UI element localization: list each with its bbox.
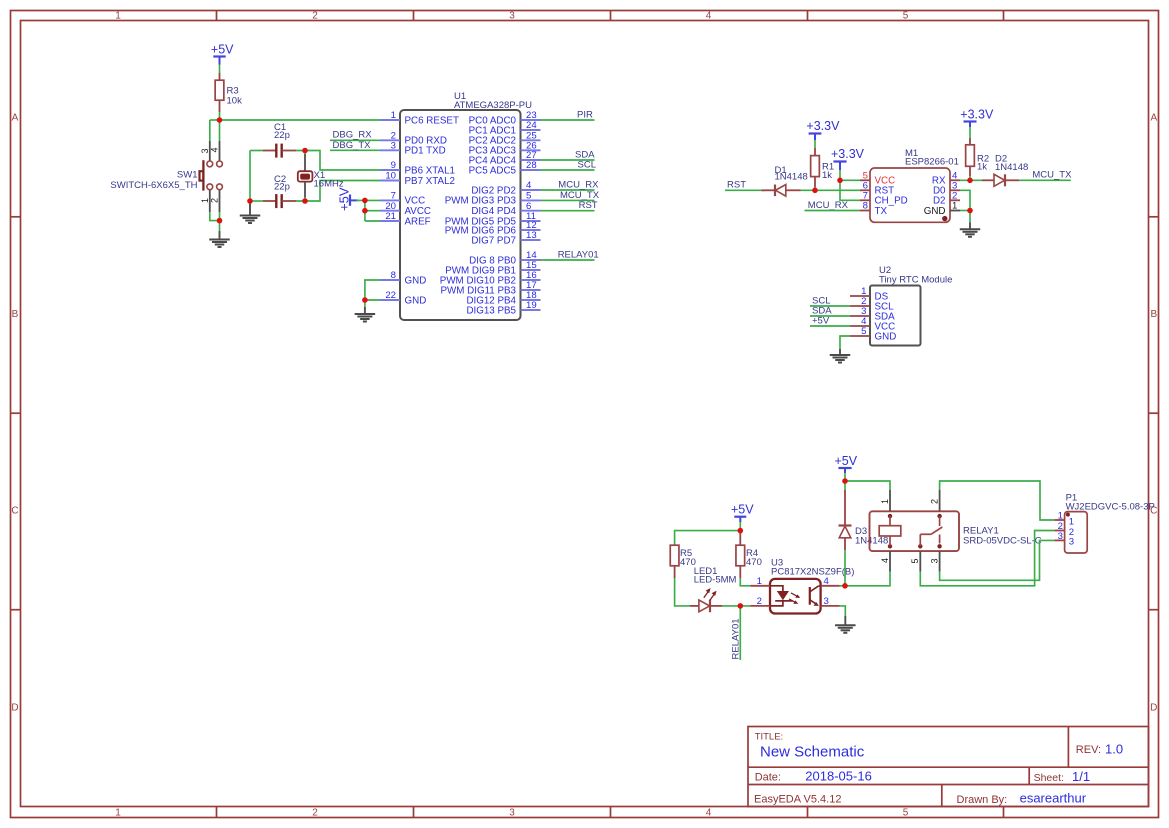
svg-text:WJ2EDGVC-5.08-3P: WJ2EDGVC-5.08-3P xyxy=(1066,501,1155,512)
svg-text:PC6 RESET: PC6 RESET xyxy=(405,115,459,126)
svg-text:4: 4 xyxy=(210,147,220,152)
capacitor C2 xyxy=(250,194,296,208)
U1 pin 12 PWM DIG6 PD6 xyxy=(445,220,541,236)
power flag +3.3V (CH_PD) xyxy=(831,147,865,170)
svg-text:1: 1 xyxy=(1069,516,1074,527)
svg-text:3: 3 xyxy=(391,141,396,152)
U1 pin 10 PB7 XTAL2 xyxy=(380,171,455,187)
wire xyxy=(296,151,381,171)
svg-text:19: 19 xyxy=(526,300,537,311)
U1 pin 22 GND xyxy=(380,290,426,306)
svg-text:RELAY01: RELAY01 xyxy=(558,249,599,260)
RELAY1 contact xyxy=(918,514,942,549)
junction xyxy=(842,478,848,484)
diode D1 1N4148 xyxy=(762,185,801,197)
capacitor C1 xyxy=(250,144,296,158)
net SDA xyxy=(541,149,596,160)
net SCL xyxy=(810,295,850,306)
ground xyxy=(830,355,851,363)
svg-text:5: 5 xyxy=(903,808,909,819)
RELAY1 pin 1 xyxy=(880,490,890,511)
wire xyxy=(844,473,846,481)
U3 pin 3 xyxy=(821,596,840,607)
wire left rail xyxy=(249,151,251,202)
svg-text:2: 2 xyxy=(929,499,939,504)
svg-text:13: 13 xyxy=(526,230,537,241)
U2 pin 2 SCL xyxy=(850,296,894,312)
svg-text:EasyEDA V5.4.12: EasyEDA V5.4.12 xyxy=(754,794,841,806)
svg-text:5: 5 xyxy=(910,558,920,563)
M1 pin 7 CH_PD xyxy=(860,190,908,206)
M1 pin 3 D0 xyxy=(933,180,960,196)
svg-text:DIG13 PB5: DIG13 PB5 xyxy=(466,305,516,316)
U1 pin 21 AREF xyxy=(380,211,431,227)
wire xyxy=(219,212,221,220)
M1 pin 6 RST xyxy=(860,180,894,196)
svg-text:3: 3 xyxy=(929,558,939,563)
junction xyxy=(247,198,253,204)
U3 pin 1 xyxy=(750,576,770,587)
svg-text:PC817X2NSZ9F(B): PC817X2NSZ9F(B) xyxy=(771,567,854,578)
svg-text:B: B xyxy=(1150,309,1157,320)
wire xyxy=(365,210,381,212)
svg-text:1/1: 1/1 xyxy=(1072,769,1090,784)
power flag +3.3V (R2) xyxy=(960,107,994,127)
svg-text:D: D xyxy=(11,703,18,714)
svg-text:Drawn By:: Drawn By: xyxy=(957,794,1008,806)
wire top rail to relay pin1 xyxy=(845,481,890,490)
svg-text:10: 10 xyxy=(385,171,396,182)
U1 pin 24 PC1 ADC1 xyxy=(469,120,541,136)
P1 pin 2 xyxy=(1054,521,1074,538)
svg-text:3: 3 xyxy=(509,808,515,819)
wire xyxy=(740,578,750,586)
svg-text:RST: RST xyxy=(579,200,598,211)
svg-text:SWITCH-6X6X5_TH: SWITCH-6X6X5_TH xyxy=(110,180,197,191)
net MCU_TX xyxy=(541,190,600,201)
wire xyxy=(356,199,381,201)
svg-text:PB7 XTAL2: PB7 XTAL2 xyxy=(405,176,455,187)
RELAY1 pin 5 xyxy=(910,551,920,572)
svg-text:5: 5 xyxy=(903,11,909,22)
net MCU_RX xyxy=(805,200,861,211)
svg-text:1: 1 xyxy=(391,110,396,121)
junction xyxy=(967,178,973,184)
svg-text:1: 1 xyxy=(880,499,890,504)
LED LED1 xyxy=(690,588,722,612)
svg-text:5: 5 xyxy=(861,326,866,337)
net MCU_TX xyxy=(1019,170,1072,181)
wire xyxy=(209,120,211,141)
svg-text:4: 4 xyxy=(880,558,890,563)
svg-text:GND: GND xyxy=(405,275,427,286)
P1 pin 3 xyxy=(1054,531,1074,548)
wire xyxy=(969,211,971,223)
svg-text:+3.3V: +3.3V xyxy=(831,147,865,161)
wire GND xyxy=(840,336,850,349)
svg-text:22p: 22p xyxy=(274,182,290,193)
svg-text:esarearthur: esarearthur xyxy=(1020,791,1087,806)
svg-text:GND: GND xyxy=(875,331,897,342)
U3 internal LED xyxy=(770,586,800,606)
wire xyxy=(365,299,381,301)
wire node RESET to U1 pin1 xyxy=(220,119,382,121)
svg-text:1.0: 1.0 xyxy=(1105,742,1123,757)
wire xyxy=(722,605,750,607)
svg-text:PD1 TXD: PD1 TXD xyxy=(405,146,446,157)
wire xyxy=(840,180,860,200)
wire xyxy=(814,187,816,190)
U3 internal phototransistor xyxy=(810,586,821,606)
U1 pin 9 PB6 XTAL1 xyxy=(380,160,455,176)
U1 pin 15 PWM DIG9 PB1 xyxy=(445,260,540,276)
svg-text:SRD-05VDC-SL-C: SRD-05VDC-SL-C xyxy=(963,536,1042,547)
U1 pin 3 PD1 TXD xyxy=(380,141,446,157)
svg-text:MCU_RX: MCU_RX xyxy=(808,200,849,211)
junction xyxy=(302,198,308,204)
wire xyxy=(960,210,970,212)
resistor R3 xyxy=(215,73,224,112)
ground xyxy=(240,216,261,224)
wire xyxy=(840,606,846,616)
svg-text:3: 3 xyxy=(1058,531,1063,542)
M1 pin 2 D2 xyxy=(933,190,960,206)
svg-text:1: 1 xyxy=(757,576,762,587)
relay RELAY1 SRD-05VDC-SL-C body xyxy=(870,511,960,551)
net SDA xyxy=(810,305,850,316)
svg-text:4: 4 xyxy=(824,576,830,587)
junction xyxy=(812,188,818,194)
wire xyxy=(845,572,890,586)
wire xyxy=(801,189,861,191)
svg-text:RELAY01: RELAY01 xyxy=(730,618,741,659)
svg-text:2: 2 xyxy=(757,596,762,607)
net PIR xyxy=(541,109,595,120)
U1 pin 27 PC4 ADC4 xyxy=(469,150,541,166)
wire xyxy=(364,300,366,307)
svg-text:3: 3 xyxy=(509,11,515,22)
U3 pin 4 xyxy=(821,576,840,587)
M1 pin1 marker dot xyxy=(942,216,947,221)
svg-text:4: 4 xyxy=(706,11,712,22)
svg-text:1: 1 xyxy=(115,808,121,819)
M1 pin 4 RX xyxy=(932,170,960,186)
net RELAY01 xyxy=(541,249,599,260)
svg-text:2: 2 xyxy=(312,11,318,22)
wire xyxy=(840,179,860,181)
svg-text:PB6 XTAL1: PB6 XTAL1 xyxy=(405,165,455,176)
svg-text:AREF: AREF xyxy=(405,216,431,227)
resistor R4 xyxy=(736,533,745,578)
svg-text:+5V: +5V xyxy=(731,503,754,517)
svg-text:+3.3V: +3.3V xyxy=(806,119,840,133)
svg-text:Sheet:: Sheet: xyxy=(1034,772,1064,784)
svg-text:1: 1 xyxy=(200,198,210,203)
optocoupler U3 PC817X2NSZ9F(B) body xyxy=(770,579,821,614)
U1 pin 1 PC6 RESET xyxy=(380,110,459,126)
svg-text:9: 9 xyxy=(391,160,396,171)
net +5V xyxy=(810,315,850,326)
power flag +5V (relay section) xyxy=(835,454,858,473)
resistor R5 xyxy=(670,545,679,578)
svg-text:REV:: REV: xyxy=(1076,744,1101,756)
RELAY1 pin 2 xyxy=(929,490,939,511)
wire xyxy=(296,181,381,202)
U1 pin 18 DIG12 PB4 xyxy=(466,290,540,306)
power flag +5V xyxy=(211,43,234,65)
svg-text:22: 22 xyxy=(385,290,396,301)
U2 pin 4 VCC xyxy=(850,316,895,332)
svg-text:Tiny RTC Module: Tiny RTC Module xyxy=(879,274,952,285)
U1 pin 26 PC3 ADC3 xyxy=(469,141,541,157)
svg-text:470: 470 xyxy=(746,557,762,568)
wire xyxy=(219,221,221,231)
M1 pin 8 TX xyxy=(860,201,887,217)
U1 pin 8 GND xyxy=(380,270,426,286)
svg-text:MCU_TX: MCU_TX xyxy=(1032,170,1072,181)
svg-text:RST: RST xyxy=(727,180,746,191)
svg-text:ATMEGA328P-PU: ATMEGA328P-PU xyxy=(454,100,532,111)
power flag +5V (LED section) xyxy=(731,503,754,522)
U1 pin 17 PWM DIG11 PB3 xyxy=(441,280,541,296)
svg-text:1N4148: 1N4148 xyxy=(775,172,808,183)
svg-text:21: 21 xyxy=(385,211,396,222)
diode D2 1N4148 xyxy=(982,174,1019,186)
svg-text:B: B xyxy=(12,309,19,320)
title block xyxy=(748,727,1149,807)
svg-text:MCU_RX: MCU_RX xyxy=(558,179,599,190)
svg-text:3: 3 xyxy=(1069,537,1074,548)
svg-text:PC5 ADC5: PC5 ADC5 xyxy=(469,165,517,176)
junction xyxy=(967,208,973,214)
wire xyxy=(365,280,381,300)
svg-text:TITLE:: TITLE: xyxy=(755,732,784,743)
connector P1 WJ2EDGVC-5.08-3P body xyxy=(1065,512,1088,553)
svg-text:1: 1 xyxy=(115,11,121,22)
svg-text:D: D xyxy=(1150,703,1157,714)
wire xyxy=(210,119,220,121)
svg-text:LED-5MM: LED-5MM xyxy=(694,575,737,586)
svg-text:DBG_TX: DBG_TX xyxy=(333,140,372,151)
power flag +3.3V (R1) xyxy=(806,119,840,140)
svg-text:A: A xyxy=(1150,113,1157,124)
junction xyxy=(362,297,368,303)
wire relay pin2 to P1 pin1 xyxy=(940,481,1055,520)
junction xyxy=(837,178,843,184)
svg-text:+3.3V: +3.3V xyxy=(960,107,994,121)
U1 pin 11 PWM DIG5 PD5 xyxy=(445,211,541,227)
svg-text:4: 4 xyxy=(706,808,712,819)
wire relay pin3 to P1 pin3 xyxy=(940,540,1055,580)
svg-text:28: 28 xyxy=(526,160,537,171)
svg-text:DIG7 PD7: DIG7 PD7 xyxy=(471,235,516,246)
U1 pin 16 PWM DIG10 PB2 xyxy=(440,270,541,286)
svg-text:C: C xyxy=(11,506,18,517)
P1 pin 1 xyxy=(1054,510,1074,527)
U2 pin 1 DS xyxy=(850,286,889,302)
wire xyxy=(365,220,381,222)
svg-text:1N4148: 1N4148 xyxy=(995,162,1028,173)
U2 pin 3 SDA xyxy=(850,306,895,322)
wire xyxy=(210,212,220,220)
switch SW1 xyxy=(200,141,223,212)
junction xyxy=(842,583,848,589)
M1 pin 5 VCC xyxy=(860,170,895,186)
svg-text:3: 3 xyxy=(824,596,829,607)
U2 pin 5 GND xyxy=(850,326,896,342)
U1 pin 14 DIG 8 PB0 xyxy=(469,250,540,266)
svg-text:22p: 22p xyxy=(274,130,290,141)
ground xyxy=(960,229,981,237)
U3 pin 2 xyxy=(750,596,770,607)
wire xyxy=(840,585,845,587)
wire xyxy=(839,170,841,180)
svg-text:1N4148: 1N4148 xyxy=(855,536,888,547)
U1 pin 6 DIG4 PD4 xyxy=(471,201,540,217)
wire xyxy=(675,531,741,546)
junction xyxy=(217,218,223,224)
svg-text:SCL: SCL xyxy=(578,159,596,170)
junction xyxy=(362,208,368,214)
svg-text:1k: 1k xyxy=(822,170,832,181)
svg-text:Date:: Date: xyxy=(755,772,781,784)
svg-text:1k: 1k xyxy=(977,162,987,173)
net SCL xyxy=(541,159,596,170)
wire xyxy=(960,179,982,181)
wire xyxy=(969,176,971,180)
diode D3 1N4148 xyxy=(839,481,852,550)
svg-text:New Schematic: New Schematic xyxy=(760,744,865,761)
svg-text:2: 2 xyxy=(312,808,318,819)
svg-text:8: 8 xyxy=(391,270,396,281)
svg-text:ESP8266-01: ESP8266-01 xyxy=(905,156,959,167)
junction xyxy=(362,198,368,204)
RELAY1 pin 4 xyxy=(880,551,890,572)
RELAY1 pin 3 xyxy=(929,551,939,572)
net RELAY01 (vertical) xyxy=(730,606,741,660)
net DBG_TX xyxy=(330,149,381,151)
svg-text:4: 4 xyxy=(526,180,532,191)
wire xyxy=(219,120,221,141)
net MCU_RX xyxy=(541,179,600,190)
IC U2 Tiny RTC Module body xyxy=(870,286,921,346)
U1 pin 20 AVCC xyxy=(380,201,431,217)
junction xyxy=(738,528,744,534)
U1 pin 4 DIG2 PD2 xyxy=(471,180,540,196)
junction xyxy=(302,148,308,154)
svg-text:1: 1 xyxy=(952,201,957,212)
IC M1 ESP8266-01 body xyxy=(870,168,950,222)
svg-text:+5V: +5V xyxy=(337,187,352,211)
U1 pin 5 PWM DIG3 PD3 xyxy=(445,191,541,207)
wire xyxy=(364,200,366,221)
wire xyxy=(844,550,846,586)
svg-text:3: 3 xyxy=(200,148,210,153)
ground xyxy=(835,625,856,633)
svg-text:A: A xyxy=(12,113,19,124)
RELAY1 coil xyxy=(879,514,901,549)
ground xyxy=(209,240,230,248)
wire relay pin5 to P1 pin2 xyxy=(920,531,1054,586)
U1 pin 25 PC2 ADC2 xyxy=(469,131,541,147)
P1 pin1 marker dot xyxy=(1066,513,1070,517)
svg-text:GND: GND xyxy=(924,206,946,217)
resistor R2 xyxy=(966,127,975,176)
svg-text:2: 2 xyxy=(210,198,220,203)
svg-text:GND: GND xyxy=(405,295,427,306)
U1 pin 23 PC0 ADC0 xyxy=(469,110,541,126)
U1 pin 7 VCC xyxy=(380,191,425,207)
svg-text:TX: TX xyxy=(875,206,888,217)
svg-text:2018-05-16: 2018-05-16 xyxy=(805,769,872,784)
U1 pin 13 DIG7 PD7 xyxy=(471,230,540,246)
junction xyxy=(217,117,223,123)
svg-text:10k: 10k xyxy=(227,96,243,107)
wire D0 to GND xyxy=(960,190,970,210)
wire xyxy=(739,522,741,531)
wire xyxy=(219,65,221,74)
power flag +5V (rotated) xyxy=(337,187,359,211)
svg-text:PIR: PIR xyxy=(577,109,593,120)
wire xyxy=(219,112,221,120)
ground xyxy=(355,314,376,322)
svg-text:1: 1 xyxy=(1058,510,1063,521)
svg-text:DIG2 PD2: DIG2 PD2 xyxy=(471,185,516,196)
net DBG_RX xyxy=(330,139,381,141)
crystal X1 xyxy=(298,151,313,202)
svg-text:+5V: +5V xyxy=(211,43,234,57)
svg-text:+5V: +5V xyxy=(812,315,830,326)
op-amp U1 ATMEGA328P-PU body xyxy=(400,110,521,320)
junction xyxy=(738,603,744,609)
U1 pin 28 PC5 ADC5 xyxy=(469,160,541,176)
resistor R1 xyxy=(811,140,820,187)
svg-text:+5V: +5V xyxy=(835,454,858,468)
M1 pin 1 GND xyxy=(924,201,960,217)
U1 pin 19 DIG13 PB5 xyxy=(466,300,540,316)
svg-text:8: 8 xyxy=(863,201,868,212)
net RST xyxy=(541,200,598,211)
U1 pin 2 PD0 RXD xyxy=(380,131,447,147)
wire xyxy=(675,578,690,606)
net RST xyxy=(725,180,766,191)
